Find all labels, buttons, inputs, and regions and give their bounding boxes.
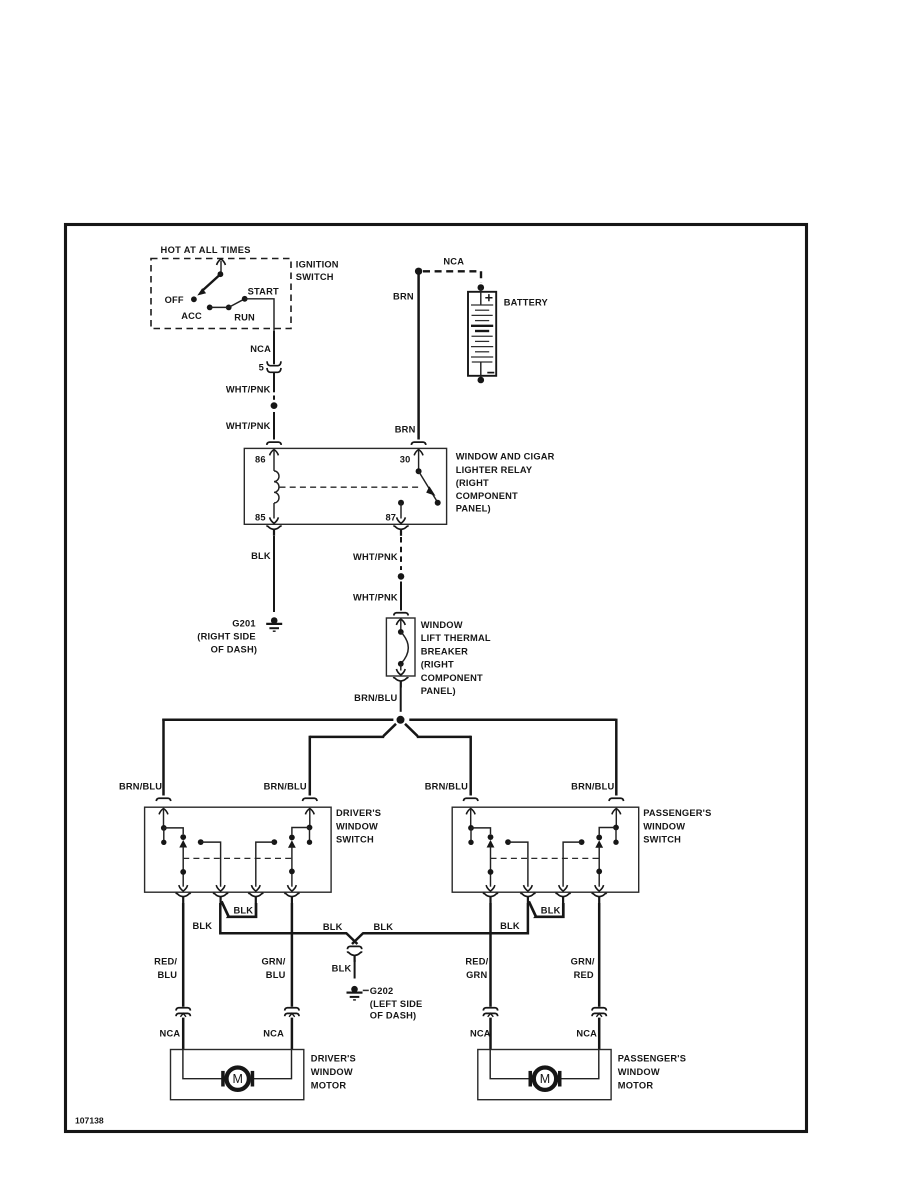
- svg-text:RED/: RED/: [465, 957, 488, 967]
- connector at relay pin 30: [411, 442, 425, 445]
- connector below relay pin 87: [393, 526, 408, 536]
- svg-text:86: 86: [255, 454, 266, 464]
- ground G202 leader dash: [363, 989, 369, 991]
- svg-text:DRIVER'S: DRIVER'S: [336, 808, 381, 818]
- driver switch output-left exit arrow: [216, 885, 225, 891]
- svg-text:NCA: NCA: [160, 1029, 181, 1039]
- connector pair on ground drop lower: [347, 952, 362, 962]
- connector below driver pin1: [176, 893, 191, 903]
- passenger switch right blade wire: [598, 846, 600, 887]
- outer border frame: [66, 225, 807, 1132]
- svg-text:SWITCH: SWITCH: [336, 835, 374, 845]
- wire BLK driver pin2 to bus: [220, 903, 346, 933]
- svg-text:BRN/BLU: BRN/BLU: [119, 781, 162, 791]
- svg-text:MOTOR: MOTOR: [311, 1080, 347, 1090]
- wire NCA passenger pin1 lower: [489, 1018, 492, 1049]
- passenger motor terminal bar right: [558, 1071, 562, 1087]
- wire GRN/RED passenger pin4 upper: [598, 903, 601, 1007]
- BLK jumper passenger pin3: [529, 901, 564, 917]
- connector below driver pin2: [213, 893, 228, 903]
- svg-text:BLK: BLK: [374, 922, 394, 932]
- passenger switch dashed link: [491, 857, 600, 859]
- driver switch branch to right blade: [292, 828, 310, 835]
- passenger switch output-left wire: [508, 842, 528, 887]
- main junction dot: [397, 716, 405, 724]
- connector below relay pin 85: [266, 526, 281, 536]
- battery minus sign: [487, 372, 494, 374]
- svg-text:5: 5: [259, 363, 264, 373]
- relay blade contact dot: [435, 500, 441, 506]
- contact dot RUN: [226, 305, 232, 311]
- ground G202: [347, 986, 363, 1000]
- inline connector passenger pin4: [592, 1008, 606, 1017]
- connector at driver feed right: [303, 798, 317, 801]
- dashed wire WHT/PNK: [400, 537, 402, 570]
- wire RED/BLU driver pin1 upper: [182, 903, 185, 1007]
- driver switch feed-left entry arrow: [159, 809, 168, 815]
- svg-text:(RIGHT SIDE: (RIGHT SIDE: [197, 632, 256, 642]
- passenger switch feed-right junction dot: [613, 825, 619, 831]
- driver switch left blade junction dot: [180, 869, 186, 875]
- svg-text:OF DASH): OF DASH): [370, 1011, 417, 1021]
- svg-text:(RIGHT: (RIGHT: [421, 660, 454, 670]
- connector below passenger pin3: [556, 893, 571, 903]
- svg-text:WHT/PNK: WHT/PNK: [353, 552, 398, 562]
- driver switch feed-right stub contact: [309, 828, 311, 841]
- svg-text:WHT/PNK: WHT/PNK: [353, 593, 398, 603]
- svg-text:PASSENGER'S: PASSENGER'S: [618, 1054, 686, 1064]
- svg-text:BRN/BLU: BRN/BLU: [354, 693, 397, 703]
- svg-text:BRN/BLU: BRN/BLU: [425, 781, 468, 791]
- wire fuse to splice, WHT/PNK: [273, 372, 275, 392]
- passenger switch branch to left blade: [471, 828, 491, 834]
- outer bus right segment: [409, 719, 616, 722]
- passenger switch right blade exit arrow: [595, 885, 604, 891]
- driver switch right blade exit arrow: [288, 885, 297, 891]
- relay box: [244, 448, 446, 524]
- relay pivot dot pin 30: [416, 468, 422, 474]
- driver switch feed-left stub contact: [163, 828, 165, 840]
- svg-text:MOTOR: MOTOR: [618, 1080, 654, 1090]
- outer bus left segment: [162, 719, 393, 722]
- bus X-connector left diagonal: [346, 933, 357, 944]
- svg-text:WHT/PNK: WHT/PNK: [226, 421, 271, 431]
- svg-text:WINDOW: WINDOW: [311, 1067, 353, 1077]
- wire splice to relay pin 86: [273, 412, 275, 440]
- junction dot BRN/NCA: [415, 268, 422, 275]
- wire NCA passenger pin4 lower: [598, 1018, 601, 1049]
- passenger switch feed-right stub contact: [615, 828, 617, 841]
- wire WHT/PNK to breaker: [400, 582, 402, 611]
- ground G201: [266, 617, 282, 631]
- connector below driver pin4: [284, 893, 299, 903]
- connector below passenger pin1: [483, 893, 498, 903]
- driver switch left blade exit arrow: [179, 885, 188, 891]
- breaker upper dot: [398, 629, 404, 635]
- svg-text:GRN: GRN: [466, 970, 487, 980]
- wire ACC to RUN: [210, 306, 229, 308]
- driver motor terminal bar left: [221, 1071, 225, 1087]
- connector at breaker top: [394, 613, 408, 616]
- drop wire to passenger feed left: [469, 736, 472, 796]
- connector at breaker bottom: [393, 678, 408, 688]
- passenger motor internal wire left: [490, 1050, 529, 1079]
- passenger switch feed-left stub contact: [470, 828, 472, 840]
- passenger switch output-left exit arrow: [524, 885, 533, 891]
- bus X-connector right diagonal: [352, 933, 363, 944]
- connector below passenger pin4: [592, 893, 607, 903]
- passenger's window motor box: [478, 1050, 611, 1100]
- svg-text:NCA: NCA: [263, 1029, 284, 1039]
- driver switch feed-right entry arrow: [305, 809, 314, 815]
- relay coil: [274, 471, 279, 503]
- passenger switch branch to right blade: [599, 828, 616, 835]
- svg-text:BRN/BLU: BRN/BLU: [571, 781, 614, 791]
- inline connector passenger pin1: [483, 1008, 497, 1017]
- driver switch output-right contact dot: [271, 839, 277, 845]
- connector below driver pin3: [248, 893, 263, 903]
- passenger motor circle: [534, 1068, 556, 1090]
- svg-text:BLK: BLK: [251, 551, 271, 561]
- svg-text:PASSENGER'S: PASSENGER'S: [643, 808, 711, 818]
- svg-text:GRN/: GRN/: [261, 957, 285, 967]
- contact dot START: [242, 296, 248, 302]
- svg-text:COMPONENT: COMPONENT: [421, 673, 483, 683]
- battery box: [468, 292, 496, 376]
- wire NCA driver pin4 lower: [291, 1018, 294, 1049]
- svg-text:BLU: BLU: [157, 970, 177, 980]
- fuse 5: [267, 361, 281, 365]
- svg-text:SWITCH: SWITCH: [643, 835, 681, 845]
- diagonal to inner bus left: [383, 724, 396, 736]
- svg-text:NCA: NCA: [250, 344, 271, 354]
- passenger switch right blade contact dot: [596, 835, 602, 841]
- svg-text:WINDOW: WINDOW: [421, 620, 463, 630]
- passenger switch output-right exit arrow: [559, 885, 568, 891]
- svg-text:PANEL): PANEL): [421, 686, 456, 696]
- driver's window switch box: [145, 807, 332, 892]
- svg-text:ACC: ACC: [181, 311, 202, 321]
- svg-text:RED/: RED/: [154, 957, 177, 967]
- svg-text:G201: G201: [232, 619, 256, 629]
- drop wire to driver feed left: [162, 719, 165, 796]
- svg-text:RED: RED: [574, 970, 594, 980]
- svg-text:G202: G202: [370, 986, 394, 996]
- passenger switch output-right contact dot: [579, 839, 585, 845]
- svg-text:BLK: BLK: [332, 963, 352, 973]
- splice dot: [398, 573, 405, 580]
- svg-text:BRN/BLU: BRN/BLU: [264, 781, 307, 791]
- svg-text:BLK: BLK: [234, 906, 254, 916]
- svg-text:WINDOW: WINDOW: [336, 821, 378, 831]
- battery negative terminal dot: [478, 377, 485, 384]
- passenger switch left blade exit arrow: [486, 885, 495, 891]
- svg-text:BRN: BRN: [393, 292, 414, 302]
- svg-text:30: 30: [400, 454, 411, 464]
- driver motor internal wire right: [254, 1050, 292, 1079]
- BLK jumper driver pin3: [222, 901, 257, 917]
- svg-text:BREAKER: BREAKER: [421, 647, 468, 657]
- drop wire to passenger feed right: [615, 719, 618, 796]
- relay pin 30 entry arrow: [414, 450, 423, 456]
- driver switch feed-right junction dot: [307, 825, 313, 831]
- inline connector driver pin1: [176, 1008, 190, 1017]
- connector pair on ground drop upper: [347, 946, 361, 949]
- relay pin 85 wire and arrow: [273, 503, 275, 519]
- wire BLK to G202: [354, 960, 356, 979]
- wire ignition to fuse: [273, 331, 275, 364]
- svg-text:87: 87: [385, 512, 396, 522]
- wire RED/GRN passenger pin1 upper: [489, 903, 492, 1007]
- relay blade: [419, 471, 437, 500]
- driver switch right blade wire: [291, 846, 293, 887]
- driver switch left blade arrow: [179, 840, 187, 848]
- svg-text:IGNITION: IGNITION: [296, 259, 339, 269]
- svg-text:85: 85: [255, 512, 266, 522]
- contact dot OFF: [191, 296, 197, 302]
- inner bus right segment: [417, 736, 471, 739]
- passenger switch feed-left junction dot: [468, 825, 474, 831]
- relay pin 87 wire and arrow: [400, 503, 402, 519]
- passenger switch left blade contact dot: [488, 834, 494, 840]
- relay pin 86 entry arrow: [270, 450, 279, 456]
- contact dot ACC: [207, 305, 213, 311]
- svg-text:BLK: BLK: [192, 921, 212, 931]
- svg-text:M: M: [540, 1072, 550, 1086]
- wire START output: [245, 299, 274, 331]
- passenger switch feed-left entry arrow: [466, 809, 475, 815]
- driver switch output-right exit arrow: [251, 885, 260, 891]
- breaker bimetal arc: [401, 632, 409, 664]
- svg-text:LIGHTER RELAY: LIGHTER RELAY: [456, 465, 533, 475]
- splice dot: [271, 402, 278, 409]
- svg-text:OFF: OFF: [165, 295, 184, 305]
- dashed NCA wire to battery: [423, 271, 481, 283]
- passenger switch feed-right entry arrow: [612, 809, 621, 815]
- passenger switch output-left contact dot: [505, 839, 511, 845]
- connector at passenger feed right: [609, 798, 623, 801]
- svg-text:BATTERY: BATTERY: [504, 298, 549, 308]
- svg-text:(RIGHT: (RIGHT: [456, 478, 489, 488]
- breaker lower dot: [398, 661, 404, 667]
- svg-text:NCA: NCA: [576, 1029, 597, 1039]
- wire GRN/BLU driver pin4 upper: [291, 903, 294, 1007]
- passenger switch output-right wire: [563, 842, 582, 887]
- svg-text:BLK: BLK: [541, 906, 561, 916]
- connector at relay pin 86: [267, 442, 281, 445]
- connector below passenger pin2: [520, 893, 535, 903]
- svg-text:107138: 107138: [75, 1116, 104, 1126]
- svg-text:GRN/: GRN/: [571, 957, 595, 967]
- relay pin 87 contact dot: [398, 500, 404, 506]
- svg-text:BRN: BRN: [395, 424, 416, 434]
- passenger switch right blade junction dot: [596, 869, 602, 875]
- driver switch feed-left junction dot: [161, 825, 167, 831]
- svg-text:DRIVER'S: DRIVER'S: [311, 1054, 356, 1064]
- thermal breaker box: [386, 618, 415, 676]
- driver's window motor box: [171, 1050, 304, 1100]
- svg-text:WINDOW: WINDOW: [618, 1067, 660, 1077]
- battery positive terminal dot: [478, 284, 485, 291]
- wire NCA driver pin1 lower: [182, 1018, 185, 1049]
- driver switch dashed link: [183, 857, 292, 859]
- connector at passenger feed left: [464, 798, 478, 801]
- drop wire to driver feed right: [309, 736, 312, 796]
- passenger switch left blade wire: [490, 846, 492, 887]
- driver switch output-left wire: [201, 842, 221, 887]
- svg-text:HOT AT ALL TIMES: HOT AT ALL TIMES: [161, 245, 251, 255]
- passenger switch left blade junction dot: [488, 869, 494, 875]
- driver switch left blade wire: [182, 846, 184, 887]
- ignition switch feed arrow to HOT: [220, 261, 222, 274]
- ignition switch dashed box: [151, 259, 291, 329]
- svg-text:PANEL): PANEL): [456, 504, 491, 514]
- svg-text:LIFT THERMAL: LIFT THERMAL: [421, 633, 491, 643]
- svg-text:WINDOW: WINDOW: [643, 821, 685, 831]
- svg-text:WINDOW AND CIGAR: WINDOW AND CIGAR: [456, 452, 555, 462]
- passenger switch left blade arrow: [487, 840, 495, 848]
- diagonal to inner bus right: [405, 724, 418, 736]
- passenger motor internal wire right: [561, 1050, 599, 1079]
- wire BRN/BLU breaker to junction: [400, 688, 402, 712]
- battery plates: [471, 305, 493, 362]
- svg-text:NCA: NCA: [443, 257, 464, 267]
- driver switch right blade arrow: [288, 840, 296, 848]
- driver switch left blade contact dot: [180, 834, 186, 840]
- passenger switch right blade arrow: [595, 840, 603, 848]
- dashed fragment: [273, 396, 275, 400]
- ignition switch pivot dot: [218, 271, 224, 277]
- breaker entry arrow: [396, 619, 405, 625]
- wire RUN to START: [229, 299, 245, 308]
- battery negative stem: [480, 362, 482, 379]
- battery plus sign: [485, 294, 492, 301]
- svg-text:BLU: BLU: [266, 970, 286, 980]
- passenger's window switch box: [452, 807, 639, 892]
- svg-text:OF DASH): OF DASH): [211, 645, 258, 655]
- driver switch output-right wire: [256, 842, 274, 887]
- connector at driver feed left: [156, 798, 170, 801]
- svg-text:BLK: BLK: [323, 922, 343, 932]
- svg-text:BLK: BLK: [500, 921, 520, 931]
- svg-text:M: M: [232, 1072, 242, 1086]
- svg-text:WHT/PNK: WHT/PNK: [226, 384, 271, 394]
- passenger motor terminal bar left: [529, 1071, 533, 1087]
- svg-text:RUN: RUN: [234, 313, 255, 323]
- driver switch right blade contact dot: [289, 835, 295, 841]
- bus right segment to passenger: [363, 903, 528, 933]
- driver switch right blade junction dot: [289, 869, 295, 875]
- inline connector driver pin4: [285, 1008, 299, 1017]
- driver switch output-left contact dot: [198, 839, 204, 845]
- driver motor internal wire left: [183, 1050, 222, 1079]
- svg-text:COMPONENT: COMPONENT: [456, 491, 518, 501]
- svg-text:SWITCH: SWITCH: [296, 272, 334, 282]
- driver motor circle: [227, 1068, 249, 1090]
- relay mechanical dashed link: [280, 486, 422, 488]
- wire BRN battery to relay pin 30: [417, 271, 420, 439]
- svg-text:(LEFT SIDE: (LEFT SIDE: [370, 999, 423, 1009]
- driver motor terminal bar right: [251, 1071, 255, 1087]
- breaker exit wire and arrow: [400, 664, 402, 671]
- inner bus left segment: [310, 736, 385, 739]
- svg-text:START: START: [248, 287, 279, 297]
- wire BLK relay to G201: [273, 536, 275, 612]
- svg-text:NCA: NCA: [470, 1029, 491, 1039]
- ignition switch blade toward OFF: [203, 274, 221, 290]
- driver switch branch to left blade: [164, 828, 183, 834]
- battery positive stem: [480, 288, 482, 305]
